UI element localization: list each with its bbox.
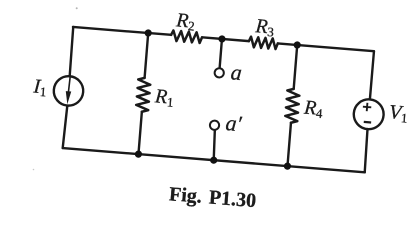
wire between R2 and node a junction: [202, 37, 249, 41]
junction dot bottom of R1: [135, 150, 143, 158]
V1 plus sign: [363, 102, 372, 111]
terminal a' (open circle): [210, 120, 220, 130]
wire left edge upper: [69, 27, 73, 76]
svg-text:I1: I1: [32, 75, 48, 99]
wire R1 branch top lead: [145, 33, 149, 78]
svg-text:R1: R1: [153, 85, 174, 110]
resistor R2 (zigzag): [171, 30, 203, 43]
resistor R4 (zigzag): [285, 88, 300, 123]
current source I1 arrowhead: [65, 91, 72, 104]
junction dot node a on top wire: [218, 35, 226, 43]
voltage source V1 (circle): [353, 98, 385, 130]
wire stub to terminal a: [220, 39, 222, 68]
resistor R1 (zigzag): [136, 77, 151, 112]
wire stub from terminal a' to bottom: [212, 130, 216, 160]
resistor R3 (zigzag): [248, 37, 278, 50]
junction dot bottom of R4: [284, 162, 292, 170]
wire top-left segment: [73, 27, 171, 35]
wire bottom: [63, 148, 365, 172]
wire right edge upper: [370, 51, 374, 99]
terminal a (open circle): [214, 68, 224, 78]
junction dot top of R4: [293, 41, 301, 49]
svg-text:R4: R4: [302, 97, 324, 122]
wire right edge lower: [364, 129, 368, 172]
current source I1 arrow shaft: [68, 78, 70, 93]
svg-text:a: a: [230, 59, 243, 85]
svg-text:Fig. P1.30: Fig. P1.30: [168, 183, 257, 212]
current source I1 (circle): [53, 75, 85, 107]
svg-text:a′: a′: [225, 110, 244, 136]
junction dot bottom of a': [210, 156, 218, 164]
svg-text:V1: V1: [388, 101, 409, 125]
V1 minus sign: [364, 121, 371, 124]
wire top-right segment: [278, 43, 374, 51]
svg-text:R3: R3: [254, 15, 275, 40]
svg-text:R2: R2: [174, 9, 195, 34]
wire R4 branch bottom lead: [287, 123, 290, 166]
wire left edge lower: [63, 105, 68, 148]
wire R1 branch bottom lead: [138, 112, 141, 154]
wire R4 branch top lead: [294, 45, 298, 89]
junction dot top of R1: [144, 29, 152, 37]
